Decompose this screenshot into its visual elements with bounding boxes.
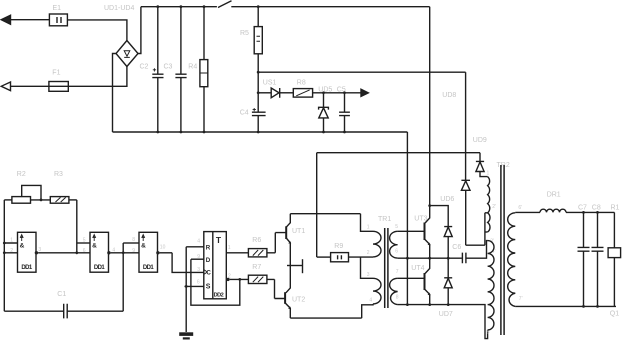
wire	[122, 243, 124, 311]
svg-text:7: 7	[396, 269, 399, 275]
capacitor C5	[344, 93, 346, 112]
svg-text:T: T	[216, 235, 222, 245]
svg-text:1: 1	[228, 245, 231, 251]
wire bottom rail	[398, 305, 488, 339]
capacitor C2	[157, 7, 159, 74]
svg-text:UD7: UD7	[439, 311, 453, 318]
transformer TR2 secondary	[508, 213, 516, 307]
svg-text:Q1: Q1	[610, 310, 619, 317]
transistor UT1	[286, 214, 290, 228]
svg-text:C2: C2	[140, 63, 149, 70]
fuse F1	[49, 82, 68, 92]
svg-text:9: 9	[197, 254, 200, 260]
svg-text:UT3: UT3	[414, 215, 427, 222]
wire output top rail	[566, 211, 614, 213]
wire	[67, 20, 127, 41]
connector E1	[49, 14, 67, 26]
DD2 output pin 1	[226, 252, 248, 254]
capacitor C1	[4, 310, 63, 312]
svg-text:10: 10	[160, 245, 166, 251]
capacitor C7	[583, 212, 585, 247]
svg-text:UT4: UT4	[411, 265, 424, 272]
svg-text:DD1: DD1	[94, 265, 105, 271]
svg-text:R5: R5	[240, 30, 249, 37]
svg-text:US1: US1	[263, 80, 277, 87]
wire pin5 to UT3 base	[398, 230, 425, 232]
wire	[258, 71, 465, 73]
resistor R5	[257, 7, 259, 27]
load resistor R	[613, 212, 615, 247]
wire tap 3p	[485, 231, 488, 233]
wire tap 2p	[466, 213, 488, 245]
wire	[69, 199, 77, 201]
wire output bottom rail	[515, 305, 616, 307]
tap capacitor	[287, 265, 302, 267]
transformer TR1 secondary	[390, 231, 398, 258]
bridge rectifier UD1-UD4	[116, 41, 138, 67]
wire	[316, 153, 318, 257]
diode UD7	[447, 258, 449, 278]
svg-text:C6: C6	[452, 244, 461, 251]
wire top bus	[141, 6, 217, 8]
svg-text:3: 3	[38, 247, 41, 253]
capacitor C4	[252, 112, 266, 115]
svg-text:9: 9	[132, 248, 135, 254]
junction dots	[156, 5, 345, 133]
svg-text:DD1: DD1	[21, 265, 32, 271]
svg-text:C7: C7	[578, 204, 587, 211]
svg-text:C3: C3	[164, 63, 173, 70]
svg-text:2: 2	[367, 250, 370, 256]
diode UD6	[444, 227, 452, 237]
svg-text:8: 8	[132, 237, 135, 243]
wire	[113, 54, 117, 133]
svg-text:UT1: UT1	[292, 228, 305, 235]
switch S	[218, 1, 232, 8]
svg-text:1: 1	[10, 238, 13, 244]
svg-text:R4: R4	[188, 63, 197, 70]
logic gate DD1 a	[18, 232, 37, 272]
wire UD6 branch	[430, 206, 449, 227]
wire negative rail	[406, 132, 408, 305]
wire	[76, 200, 78, 253]
svg-text:D: D	[206, 257, 211, 264]
svg-text:DD1: DD1	[143, 265, 154, 271]
svg-text:S: S	[206, 284, 211, 291]
svg-text:UD1-UD4: UD1-UD4	[104, 5, 134, 12]
svg-text:6: 6	[395, 248, 398, 254]
transformer TR2 primary	[488, 177, 490, 213]
transistor UT4	[425, 258, 430, 273]
svg-text:UD6: UD6	[440, 196, 454, 203]
svg-text:7': 7'	[519, 296, 523, 302]
svg-text:2: 2	[228, 274, 231, 280]
flip-flop DD2	[204, 232, 227, 299]
svg-text:1: 1	[367, 224, 370, 230]
svg-text:TR1: TR1	[378, 216, 391, 223]
svg-text:&: &	[141, 243, 146, 250]
wire left rail	[3, 200, 5, 311]
svg-text:UD5: UD5	[318, 87, 332, 94]
junction dots	[3, 199, 241, 288]
wire pin7 to UT4 base	[398, 277, 425, 279]
transistor UT3	[425, 7, 430, 223]
svg-text:6: 6	[83, 248, 86, 254]
svg-text:R: R	[206, 244, 211, 251]
wire	[138, 7, 141, 54]
svg-text:&: &	[92, 243, 97, 250]
wire center rail	[398, 241, 488, 259]
svg-text:4: 4	[112, 248, 115, 254]
resistor R8	[280, 92, 294, 94]
capacitor C8	[597, 212, 599, 247]
svg-text:R7: R7	[252, 264, 261, 271]
diode UD8	[461, 180, 470, 190]
connector F1 arrow	[1, 82, 10, 91]
svg-text:6: 6	[197, 280, 200, 286]
wire	[68, 67, 127, 87]
svg-text:E1: E1	[53, 5, 62, 12]
wire	[317, 152, 480, 154]
svg-text:R6: R6	[252, 237, 261, 244]
wire rail top of UT1 block	[290, 213, 360, 215]
wire with arrow	[313, 92, 361, 94]
resistor R2 (potentiometer)	[4, 199, 12, 201]
capacitor C6	[462, 253, 466, 264]
svg-text:R1: R1	[611, 204, 620, 211]
svg-text:8: 8	[396, 294, 399, 300]
svg-text:&: &	[20, 243, 25, 250]
svg-text:DD2: DD2	[214, 292, 224, 298]
svg-text:2': 2'	[492, 204, 496, 210]
svg-text:3: 3	[197, 267, 200, 273]
diode US1	[258, 92, 271, 94]
svg-text:DR1: DR1	[547, 191, 561, 198]
svg-text:R3: R3	[54, 171, 63, 178]
DD2 input pins	[186, 246, 204, 248]
transformer TR1 primary	[361, 214, 374, 232]
wire to C input	[172, 253, 204, 273]
resistor R4	[203, 7, 205, 60]
svg-text:C: C	[206, 270, 211, 277]
wire top bus	[231, 6, 429, 8]
svg-text:4: 4	[197, 238, 200, 244]
svg-text:UD9: UD9	[473, 137, 487, 144]
svg-text:F1: F1	[52, 69, 60, 76]
svg-text:4: 4	[369, 297, 372, 303]
svg-text:C4: C4	[240, 109, 249, 116]
svg-text:UD8: UD8	[442, 92, 456, 99]
svg-text:6': 6'	[518, 205, 522, 211]
svg-text:UT2: UT2	[292, 296, 305, 303]
wire	[465, 72, 467, 180]
zener diode UD5	[323, 93, 325, 107]
wires and components inserted below	[1, 1, 489, 257]
wire rail bottom of UT2 block	[290, 317, 361, 319]
capacitor C3	[180, 7, 182, 74]
diode UD9	[479, 153, 481, 162]
inductor DR1	[540, 209, 566, 212]
resistor R7	[248, 275, 267, 283]
junction dots	[406, 204, 599, 308]
feedback wire	[191, 259, 240, 305]
transistor UT2	[286, 266, 290, 293]
wire	[10, 19, 49, 21]
svg-text:2: 2	[10, 248, 13, 254]
connector E1 arrow	[1, 15, 10, 24]
svg-text:5: 5	[395, 224, 398, 230]
svg-text:R9: R9	[334, 243, 343, 250]
resistor R9	[317, 256, 331, 258]
logic gate DD1 c	[139, 232, 158, 272]
svg-text:C1: C1	[57, 291, 66, 298]
resistor R6	[248, 249, 267, 257]
svg-text:5: 5	[83, 238, 86, 244]
resistor R3	[50, 197, 69, 204]
svg-text:R2: R2	[17, 171, 26, 178]
svg-text:R8: R8	[297, 80, 306, 87]
wire bottom bus	[113, 131, 408, 133]
transformer TR1 core	[385, 228, 388, 308]
DD2 output pin 2	[226, 278, 229, 281]
wire	[515, 211, 540, 213]
svg-text:C8: C8	[592, 204, 601, 211]
logic gate DD1 b	[90, 232, 109, 272]
transformer TR2 core	[501, 165, 504, 335]
wire	[11, 85, 49, 87]
svg-text:1: 1	[487, 171, 490, 177]
svg-text:3: 3	[367, 272, 370, 278]
svg-text:TR2: TR2	[497, 162, 510, 169]
ground	[185, 247, 187, 332]
